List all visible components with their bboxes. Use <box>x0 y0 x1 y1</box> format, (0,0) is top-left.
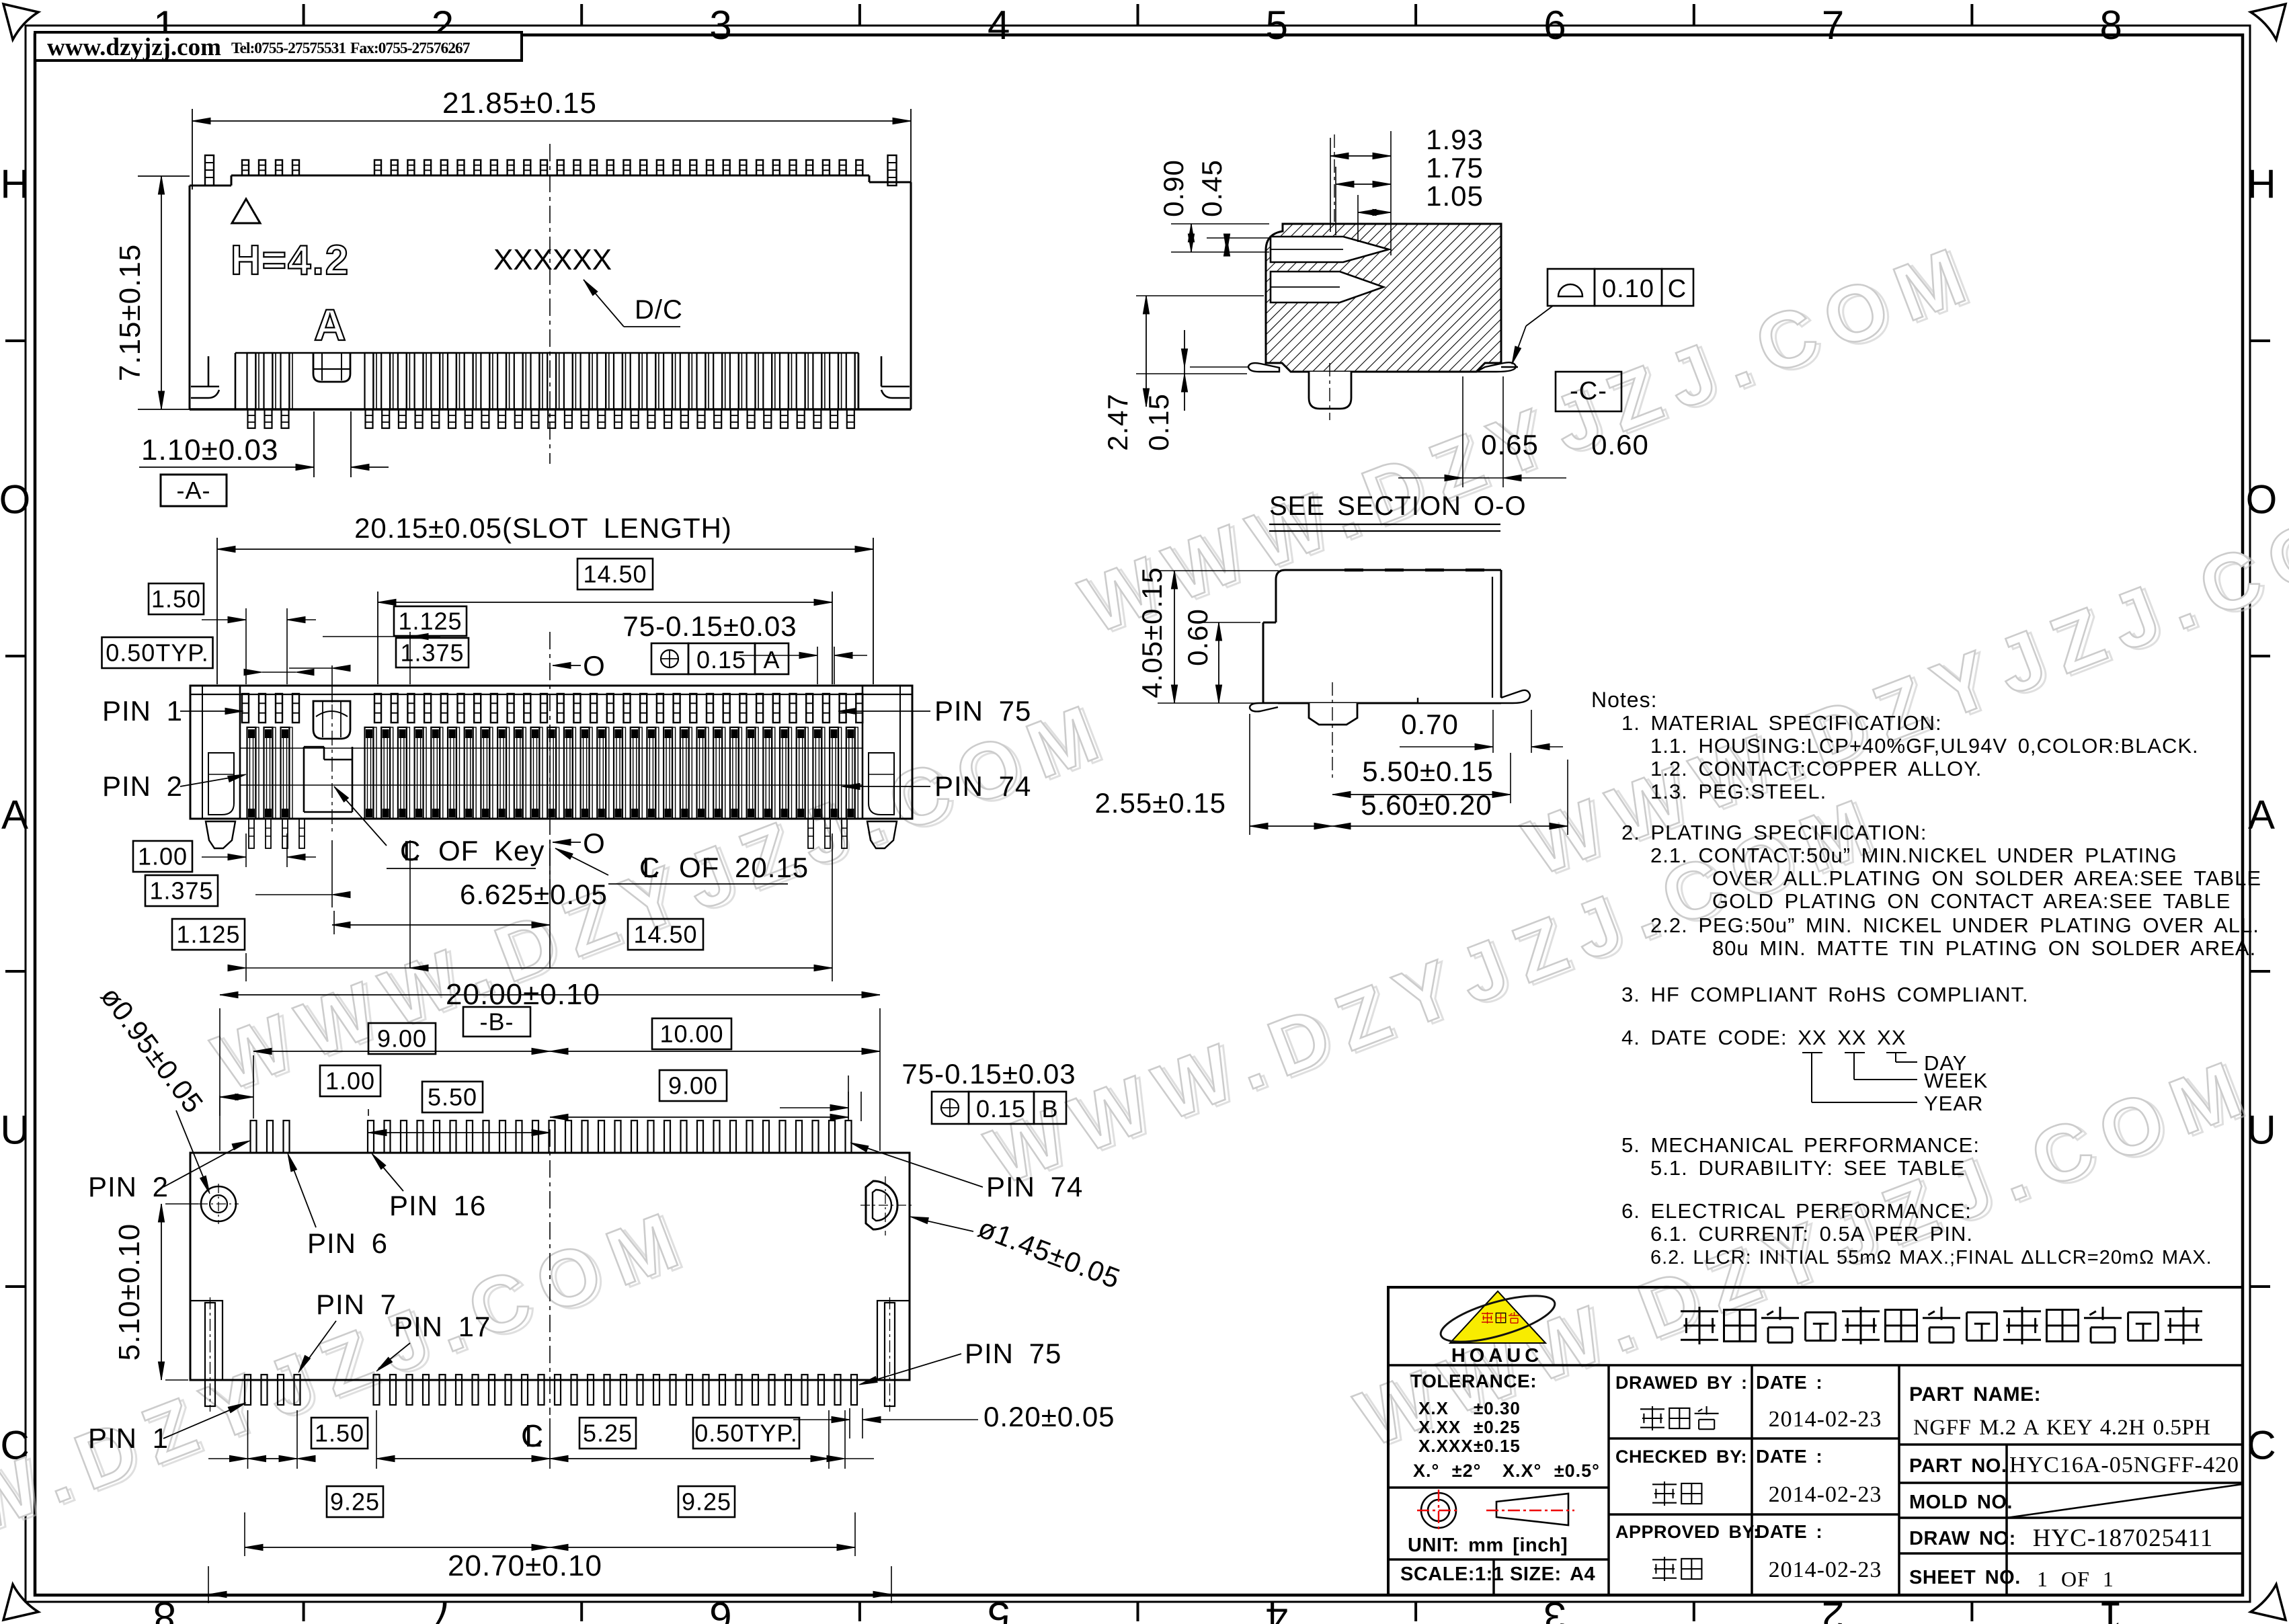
svg-text:A: A <box>1 793 28 838</box>
svg-text:X.° ±2°: X.° ±2° <box>1413 1461 1481 1481</box>
svg-text:SHEET NO.: SHEET NO. <box>1909 1567 2021 1588</box>
svg-text:8: 8 <box>153 1594 175 1624</box>
svg-text:PART NAME:: PART NAME: <box>1909 1383 2041 1406</box>
svg-text:PIN 75: PIN 75 <box>934 695 1031 727</box>
svg-text:A: A <box>2248 793 2275 838</box>
svg-text:1. MATERIAL SPECIFICATION:: 1. MATERIAL SPECIFICATION: <box>1621 711 1942 735</box>
svg-text:0.50TYP.: 0.50TYP. <box>106 639 208 667</box>
svg-text:XXXXXX: XXXXXX <box>493 243 612 276</box>
svg-text:U: U <box>0 1108 29 1153</box>
svg-text:PIN 1: PIN 1 <box>102 695 183 727</box>
svg-text:20.70±0.10: 20.70±0.10 <box>448 1549 602 1582</box>
svg-text:C: C <box>1668 275 1687 303</box>
svg-text:6.2. LLCR: INITIAL 55mΩ MA: 6.2. LLCR: INITIAL 55mΩ MAX.;FINAL ΔLLCR… <box>1650 1247 2212 1268</box>
svg-text:C: C <box>2247 1423 2276 1468</box>
svg-text:±0.25: ±0.25 <box>1474 1417 1521 1437</box>
svg-text:OF Key: OF Key <box>438 835 545 866</box>
svg-text:±0.15: ±0.15 <box>1474 1436 1521 1456</box>
svg-text:DRAWED BY :: DRAWED BY : <box>1615 1373 1748 1393</box>
svg-text:2014-02-23: 2014-02-23 <box>1769 1557 1882 1582</box>
svg-text:O: O <box>2246 477 2278 522</box>
svg-text:1: 1 <box>2099 1594 2122 1624</box>
svg-text:2.47: 2.47 <box>1102 393 1133 451</box>
svg-text:9.00: 9.00 <box>377 1025 427 1053</box>
svg-text:1.3. PEG:STEEL.: 1.3. PEG:STEEL. <box>1650 780 1826 803</box>
svg-text:HYC-187025411: HYC-187025411 <box>2033 1525 2214 1552</box>
svg-text:0.65: 0.65 <box>1481 429 1539 460</box>
svg-text:PIN 17: PIN 17 <box>394 1311 491 1342</box>
svg-text:DATE :: DATE : <box>1756 1446 1822 1467</box>
svg-text:NGFF M.2 A KEY 4.2H 0.5PH: NGFF M.2 A KEY 4.2H 0.5PH <box>1913 1416 2211 1440</box>
svg-text:X.X° ±0.5°: X.X° ±0.5° <box>1502 1461 1600 1481</box>
svg-text:MOLD NO.: MOLD NO. <box>1909 1492 2013 1513</box>
svg-text:UNIT: mm [inch]: UNIT: mm [inch] <box>1408 1535 1568 1556</box>
svg-text:5.10±0.10: 5.10±0.10 <box>113 1223 146 1361</box>
svg-text:4.05±0.15: 4.05±0.15 <box>1136 567 1168 698</box>
svg-text:PIN 7: PIN 7 <box>316 1289 397 1320</box>
svg-text:SCALE:1:1: SCALE:1:1 <box>1400 1564 1504 1585</box>
svg-text:0.70: 0.70 <box>1401 708 1459 740</box>
svg-text:1.93: 1.93 <box>1426 124 1484 155</box>
svg-text:TOLERANCE:: TOLERANCE: <box>1410 1371 1537 1391</box>
svg-text:A: A <box>763 646 780 674</box>
svg-text:X.X: X.X <box>1418 1398 1449 1418</box>
svg-text:PIN 16: PIN 16 <box>389 1190 486 1221</box>
svg-text:OF 20.15: OF 20.15 <box>679 852 809 883</box>
svg-text:9.25: 9.25 <box>682 1488 731 1516</box>
svg-text:75-0.15±0.03: 75-0.15±0.03 <box>623 610 797 642</box>
svg-text:5.50: 5.50 <box>428 1084 477 1111</box>
svg-text:5.60±0.20: 5.60±0.20 <box>1361 789 1492 821</box>
svg-text:-B-: -B- <box>480 1008 514 1036</box>
svg-text:PART NO.: PART NO. <box>1909 1455 2007 1477</box>
svg-text:5. MECHANICAL PERFORMANCE:: 5. MECHANICAL PERFORMANCE: <box>1621 1133 1980 1157</box>
svg-text:PIN 2: PIN 2 <box>102 770 183 802</box>
svg-text:4: 4 <box>1266 1594 1288 1624</box>
svg-text:0.50TYP.: 0.50TYP. <box>694 1420 797 1447</box>
svg-text:PIN 74: PIN 74 <box>934 770 1031 802</box>
svg-text:10.00: 10.00 <box>659 1020 723 1048</box>
svg-text:5: 5 <box>988 1594 1010 1624</box>
svg-text:DATE :: DATE : <box>1756 1372 1822 1393</box>
svg-text:SIZE: A4: SIZE: A4 <box>1510 1564 1595 1585</box>
svg-text:1.10±0.03: 1.10±0.03 <box>141 434 278 466</box>
svg-text:1.375: 1.375 <box>149 877 213 905</box>
svg-text:2: 2 <box>1822 1594 1844 1624</box>
svg-text:20.15±0.05(SLOT LENGTH): 20.15±0.05(SLOT LENGTH) <box>354 512 732 544</box>
svg-text:2.1. CONTACT:50u” MIN.NICKEL: 2.1. CONTACT:50u” MIN.NICKEL UNDER PLATI… <box>1650 844 2177 867</box>
svg-text:WEEK: WEEK <box>1924 1069 1988 1092</box>
svg-text:5: 5 <box>1266 3 1288 48</box>
svg-text:3: 3 <box>1543 1594 1566 1624</box>
svg-text:7.15±0.15: 7.15±0.15 <box>114 244 147 381</box>
svg-text:H: H <box>0 162 29 207</box>
svg-text:PIN 2: PIN 2 <box>88 1171 169 1203</box>
svg-text:O: O <box>583 827 606 859</box>
svg-text:DATE :: DATE : <box>1756 1521 1822 1542</box>
svg-text:6: 6 <box>709 1594 731 1624</box>
svg-text:7: 7 <box>1822 3 1844 48</box>
svg-text:D/C: D/C <box>635 295 683 325</box>
svg-text:1.75: 1.75 <box>1426 152 1484 184</box>
svg-text:B: B <box>1041 1095 1058 1123</box>
svg-text:1 OF 1: 1 OF 1 <box>2037 1567 2114 1591</box>
svg-text:PIN 6: PIN 6 <box>307 1227 388 1259</box>
svg-text:2014-02-23: 2014-02-23 <box>1769 1407 1882 1432</box>
svg-text:-C-: -C- <box>1570 377 1607 405</box>
svg-text:2.55±0.15: 2.55±0.15 <box>1094 787 1226 819</box>
svg-text:0.60: 0.60 <box>1591 429 1649 460</box>
svg-text:1.2. CONTACT:COPPER ALLOY.: 1.2. CONTACT:COPPER ALLOY. <box>1650 757 1982 780</box>
svg-text:±0.30: ±0.30 <box>1474 1398 1521 1418</box>
svg-text:O: O <box>0 477 30 522</box>
svg-text:Tel:0755-27575531 Fax:0755-27: Tel:0755-27575531 Fax:0755-27576267 <box>231 40 471 57</box>
svg-text:1.125: 1.125 <box>398 608 462 635</box>
svg-text:Notes:: Notes: <box>1591 688 1657 712</box>
svg-text:1.1. HOUSING:LCP+40%GF,UL94V: 1.1. HOUSING:LCP+40%GF,UL94V 0,COLOR:BLA… <box>1650 734 2199 758</box>
svg-text:1.125: 1.125 <box>176 921 240 948</box>
svg-text:8: 8 <box>2100 3 2122 48</box>
svg-text:PIN 75: PIN 75 <box>965 1338 1061 1369</box>
svg-text:HYC16A-05NGFF-420: HYC16A-05NGFF-420 <box>2009 1453 2239 1477</box>
svg-text:CHECKED BY:: CHECKED BY: <box>1615 1447 1747 1467</box>
svg-text:0.10: 0.10 <box>1602 275 1654 303</box>
svg-text:75-0.15±0.03: 75-0.15±0.03 <box>901 1058 1076 1090</box>
svg-text:PIN 1: PIN 1 <box>88 1422 169 1454</box>
svg-text:3: 3 <box>709 3 731 48</box>
svg-text:7: 7 <box>432 1594 454 1624</box>
svg-text:5.25: 5.25 <box>583 1420 633 1447</box>
svg-text:0.15: 0.15 <box>976 1095 1026 1123</box>
svg-text:2.2. PEG:50u” MIN. NICKEL: 2.2. PEG:50u” MIN. NICKEL UNDER PLATING … <box>1650 913 2259 937</box>
svg-text:1.00: 1.00 <box>325 1067 375 1095</box>
svg-text:1.50: 1.50 <box>315 1420 364 1447</box>
svg-text:HOAUC: HOAUC <box>1451 1345 1543 1367</box>
svg-text:9.00: 9.00 <box>668 1072 718 1100</box>
svg-text:H=4.2: H=4.2 <box>231 237 350 284</box>
svg-text:9.25: 9.25 <box>330 1488 380 1516</box>
svg-text:1.05: 1.05 <box>1426 180 1484 212</box>
svg-text:YEAR: YEAR <box>1924 1092 1983 1115</box>
svg-text:1.375: 1.375 <box>400 639 464 667</box>
svg-text:3. HF COMPLIANT RoHS COM: 3. HF COMPLIANT RoHS COMPLIANT. <box>1621 983 2029 1006</box>
svg-text:GOLD PLATING ON CONTACT AR: GOLD PLATING ON CONTACT AREA:SEE TABLE <box>1712 889 2231 913</box>
svg-text:14.50: 14.50 <box>583 561 647 588</box>
svg-text:0.15: 0.15 <box>1143 393 1174 451</box>
svg-text:DRAW NO:: DRAW NO: <box>1909 1528 2016 1549</box>
svg-text:4. DATE CODE: XX XX XX: 4. DATE CODE: XX XX XX <box>1621 1026 1906 1049</box>
svg-text:5.1. DURABILITY: SEE TABLE: 5.1. DURABILITY: SEE TABLE <box>1650 1156 1965 1180</box>
svg-text:6.625±0.05: 6.625±0.05 <box>460 879 608 910</box>
svg-text:1.50: 1.50 <box>151 585 201 613</box>
svg-text:1.00: 1.00 <box>138 843 188 870</box>
svg-text:0.90: 0.90 <box>1158 159 1189 217</box>
svg-text:6: 6 <box>1543 3 1566 48</box>
svg-text:X.XXX: X.XXX <box>1418 1436 1474 1456</box>
svg-text:0.60: 0.60 <box>1182 608 1213 666</box>
svg-text:OVER ALL.PLATING ON SOLDER: OVER ALL.PLATING ON SOLDER AREA:SEE TABL… <box>1712 866 2261 890</box>
svg-text:6. ELECTRICAL PERFORMANCE:: 6. ELECTRICAL PERFORMANCE: <box>1621 1199 1972 1223</box>
svg-text:www.dzyjzj.com: www.dzyjzj.com <box>47 34 221 61</box>
svg-text:21.85±0.15: 21.85±0.15 <box>442 87 597 120</box>
svg-text:A: A <box>314 300 346 350</box>
svg-text:2014-02-23: 2014-02-23 <box>1769 1482 1882 1507</box>
svg-text:APPROVED BY:: APPROVED BY: <box>1615 1522 1760 1542</box>
svg-text:6.1. CURRENT: 0.5A PER PIN: 6.1. CURRENT: 0.5A PER PIN. <box>1650 1222 1973 1246</box>
svg-text:0.45: 0.45 <box>1196 159 1228 217</box>
svg-text:5.50±0.15: 5.50±0.15 <box>1362 756 1494 787</box>
svg-text:-A-: -A- <box>177 477 211 504</box>
svg-text:0.15: 0.15 <box>696 646 746 674</box>
svg-text:O: O <box>583 650 606 682</box>
svg-text:4: 4 <box>988 3 1010 48</box>
svg-text:PIN 74: PIN 74 <box>986 1171 1083 1203</box>
svg-text:0.20±0.05: 0.20±0.05 <box>983 1401 1115 1432</box>
svg-text:14.50: 14.50 <box>633 921 697 948</box>
svg-text:SEE SECTION O-O: SEE SECTION O-O <box>1269 491 1527 521</box>
svg-text:H: H <box>2247 162 2276 207</box>
svg-text:X.XX: X.XX <box>1418 1417 1461 1437</box>
svg-text:80u MIN. MATTE TIN PLATI: 80u MIN. MATTE TIN PLATING ON SOLDER ARE… <box>1712 936 2256 960</box>
svg-text:2. PLATING SPECIFICATION:: 2. PLATING SPECIFICATION: <box>1621 821 1927 844</box>
